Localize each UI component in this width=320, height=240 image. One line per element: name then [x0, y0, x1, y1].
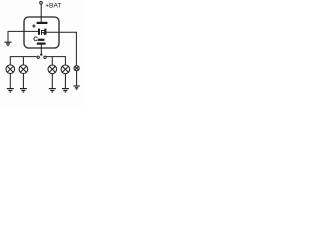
relay coil left plate — [38, 29, 40, 35]
svg-text:C: C — [33, 36, 38, 43]
left lamps bus wire — [10, 57, 36, 65]
ground (left) — [5, 42, 12, 45]
lamp L3 — [48, 65, 57, 74]
pilot lamp ground wire — [76, 71, 78, 86]
relay coil right plate — [44, 29, 46, 35]
capacitor bottom plate — [37, 43, 46, 45]
wire relay to left ground — [8, 31, 38, 42]
ground under L1 — [7, 89, 14, 92]
right lamp 1 drop wire — [51, 57, 53, 65]
wire relay to pilot lamp — [46, 32, 76, 65]
capacitor top plate — [38, 39, 45, 41]
right lamps bus wire — [46, 57, 65, 65]
lamp L2 ground wire — [22, 74, 24, 89]
lamp L2 — [19, 65, 28, 74]
ground under L4 — [62, 89, 69, 92]
switch contact left — [37, 56, 39, 58]
ground under L2 — [20, 89, 27, 92]
pilot lamp — [74, 66, 79, 71]
contact bar — [37, 22, 48, 24]
plus polarity mark — [32, 24, 35, 27]
+BAT terminal — [40, 1, 43, 4]
lamp L1 ground wire — [9, 74, 11, 89]
wire relay output to switch — [40, 45, 42, 55]
ground under pilot lamp — [74, 86, 80, 89]
switch contact right — [44, 56, 46, 58]
svg-text:+BAT: +BAT — [45, 3, 61, 10]
flasher relay box — [24, 17, 59, 48]
left lamp 2 drop wire — [22, 57, 24, 65]
lamp L4 — [61, 65, 70, 74]
lamp L4 ground wire — [64, 74, 66, 89]
lamp L3 ground wire — [51, 74, 53, 89]
switch pole dot — [40, 53, 42, 55]
wire from +BAT to relay contact — [40, 4, 42, 23]
ground under L3 — [49, 89, 56, 92]
lamp L1 — [6, 65, 15, 74]
